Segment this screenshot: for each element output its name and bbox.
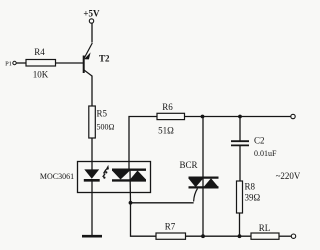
- wire R8 down to bottom wire: [239, 213, 241, 236]
- wire R5 to MOC LED anode: [91, 138, 93, 170]
- node gate junction: [129, 201, 133, 205]
- svg-text:500Ω: 500Ω: [97, 123, 115, 132]
- transistor T2 (PNP): [84, 43, 110, 76]
- wire gate horizontal to BCR gate: [131, 202, 194, 204]
- resistor R4 10K: [26, 47, 56, 80]
- power +5V terminal: [83, 9, 100, 24]
- svg-text:C2: C2: [254, 136, 265, 146]
- svg-text:R7: R7: [165, 222, 176, 232]
- terminal P1: [5, 61, 16, 68]
- svg-text:39Ω: 39Ω: [245, 193, 261, 203]
- svg-text:P1: P1: [5, 61, 12, 68]
- svg-text:10K: 10K: [33, 70, 49, 80]
- capacitor C2 0.01uF: [231, 136, 277, 159]
- resistor R5 500ohm: [89, 106, 115, 138]
- node bottom BCR: [201, 234, 205, 238]
- svg-text:R6: R6: [162, 102, 173, 112]
- LED inside MOC3061: [84, 169, 100, 180]
- wire P1 to R4: [16, 62, 26, 64]
- wire RL to AC bottom terminal: [279, 235, 291, 237]
- svg-text:RL: RL: [259, 223, 271, 233]
- light arrow: [103, 165, 109, 179]
- wire MOC pin6 up and left corner to R6: [129, 117, 157, 170]
- resistor R8 39ohm: [237, 181, 261, 213]
- wire R4 to base of T2: [56, 62, 84, 64]
- svg-text:~220V: ~220V: [276, 171, 300, 181]
- wire R6 right to AC top terminal: [185, 116, 292, 118]
- node top snubber: [238, 115, 242, 119]
- wire MOC pin4 down to gate node: [129, 170, 132, 203]
- svg-text:R8: R8: [245, 182, 256, 192]
- wire LED cathode down to ground: [91, 181, 93, 237]
- svg-text:BCR: BCR: [179, 160, 197, 170]
- triac BCR: [179, 160, 218, 202]
- resistor R7: [156, 222, 186, 240]
- svg-text:0.01uF: 0.01uF: [254, 149, 277, 158]
- svg-text:+5V: +5V: [83, 9, 100, 19]
- wire snubber top vertical: [239, 117, 241, 141]
- wire collector of T2 down to R5: [91, 76, 93, 107]
- node bottom snubber: [238, 234, 242, 238]
- svg-text:MOC3061: MOC3061: [40, 172, 74, 181]
- optocoupler U1 MOC3061 box: [40, 162, 151, 193]
- svg-text:T2: T2: [99, 54, 110, 64]
- svg-text:51Ω: 51Ω: [158, 126, 174, 136]
- node top BCR: [201, 115, 205, 119]
- svg-text:R5: R5: [97, 109, 108, 119]
- terminal AC top: [291, 114, 295, 118]
- ground: [82, 235, 102, 238]
- resistor R6 51ohm: [157, 102, 185, 136]
- photo-triac inside MOC3061: [112, 170, 146, 181]
- wire BCR anode vertical: [202, 117, 204, 237]
- resistor RL: [251, 223, 279, 239]
- terminal AC bottom: [291, 234, 295, 238]
- wire +5V to emitter of T2: [91, 23, 93, 42]
- wire R7 right to RL left: [186, 235, 252, 237]
- svg-text:R4: R4: [34, 47, 45, 57]
- wire C2 to R8: [239, 145, 241, 181]
- wire gate node down and right to R7: [131, 203, 157, 236]
